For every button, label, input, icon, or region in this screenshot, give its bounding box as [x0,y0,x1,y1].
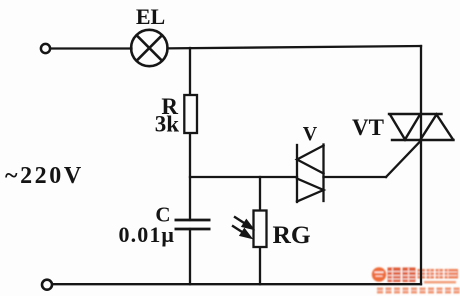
svg-text:RG: RG [273,220,311,249]
svg-text:~220V: ~220V [5,163,84,189]
svg-text:3k: 3k [155,112,180,137]
svg-text:V: V [303,123,318,145]
svg-text:VT: VT [352,115,384,140]
svg-text:EL: EL [136,4,165,29]
svg-text:0.01μ: 0.01μ [119,222,175,247]
